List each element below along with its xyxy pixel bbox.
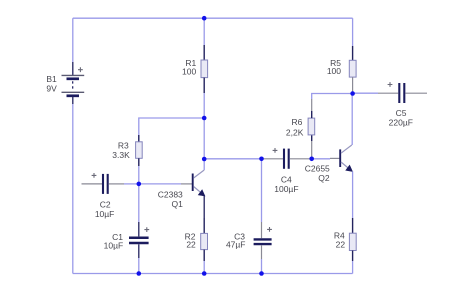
- resistor R6: [286, 111, 315, 141]
- svg-text:Q1: Q1: [171, 199, 183, 209]
- resistor R5: [327, 46, 356, 94]
- resistor R1: [182, 45, 208, 93]
- node input C2 / R3 / C1 / Q1 base: [137, 182, 142, 187]
- svg-text:2,2K: 2,2K: [286, 127, 304, 137]
- wire bottom rail: [73, 273, 353, 275]
- resistor R4: [334, 218, 356, 261]
- svg-text:3.3K: 3.3K: [112, 150, 130, 160]
- wire Q2 emitter down to R4: [352, 171, 354, 218]
- svg-text:C4: C4: [281, 174, 292, 184]
- wire R1 bottom to R3 junction: [203, 93, 205, 118]
- wire C4 node up to R6: [311, 141, 313, 159]
- node R3 / R1 junction: [202, 116, 207, 121]
- node C1 / bottom rail: [137, 271, 142, 276]
- svg-text:R3: R3: [118, 141, 129, 151]
- resistor R2: [185, 218, 208, 261]
- svg-text:100: 100: [182, 67, 196, 77]
- svg-text:10µF: 10µF: [95, 209, 115, 219]
- wire R3 bottom to input node: [138, 166, 140, 184]
- wire input node to Q1 base: [139, 183, 192, 185]
- svg-text:B1: B1: [46, 74, 57, 84]
- svg-text:C2: C2: [100, 200, 111, 210]
- capacitor C2: [82, 173, 125, 219]
- wire R6 top corner to R5 node: [312, 94, 353, 112]
- wire R4 bottom to bottom rail corner: [352, 261, 354, 274]
- svg-text:47µF: 47µF: [226, 239, 246, 249]
- capacitor C1: [104, 222, 150, 258]
- wire C1 bottom to bottom rail: [138, 258, 140, 274]
- wire R2 bottom to bottom rail: [203, 261, 205, 274]
- wire collector node to C4 node: [204, 158, 261, 160]
- capacitor C3: [226, 222, 272, 259]
- svg-text:22: 22: [336, 240, 346, 250]
- node C4 right / R6 / Q2 base: [309, 157, 314, 162]
- svg-text:10µF: 10µF: [104, 241, 124, 251]
- wire Q2 base: [312, 157, 340, 159]
- capacitor C4: [262, 148, 312, 194]
- wire Q2 collector up to R5 node: [351, 94, 353, 146]
- wire Q1 emitter down to R2: [203, 196, 205, 218]
- battery B1: [46, 67, 84, 96]
- transistor Q2: [305, 145, 353, 183]
- svg-text:100: 100: [327, 66, 341, 76]
- node R2 / bottom rail: [202, 271, 207, 276]
- wire R1 branch from top rail: [203, 18, 205, 45]
- wire top rail: [73, 17, 353, 19]
- wire R5 node to C5: [353, 92, 399, 94]
- node top rail / R1 junction: [202, 16, 207, 21]
- svg-text:C2655: C2655: [305, 164, 330, 174]
- svg-text:100µF: 100µF: [274, 184, 298, 194]
- node C3 / bottom rail: [259, 271, 264, 276]
- svg-text:C5: C5: [396, 108, 407, 118]
- wire left rail lower (battery to bottom rail): [72, 97, 74, 274]
- transistor Q1: [158, 170, 205, 209]
- wire Q1 collector to node: [203, 159, 205, 170]
- svg-text:22: 22: [186, 239, 196, 249]
- svg-text:R6: R6: [292, 117, 303, 127]
- svg-text:220µF: 220µF: [389, 118, 413, 128]
- wire C4 node down to C3: [261, 159, 263, 222]
- wire C2 to input node: [124, 183, 139, 185]
- svg-text:9V: 9V: [46, 83, 57, 93]
- svg-text:Q2: Q2: [318, 173, 330, 183]
- svg-text:C2383: C2383: [158, 189, 183, 199]
- wire left rail upper (top rail to battery): [72, 18, 74, 75]
- resistor R3: [112, 135, 142, 166]
- node C4 left / C3: [259, 157, 264, 162]
- wire R3 junction to collector node: [203, 118, 205, 159]
- wire top rail corner down to R5: [352, 18, 354, 46]
- wire C3 bottom to bottom rail: [261, 259, 263, 274]
- node Q1 collector: [202, 157, 207, 162]
- wire input node down to C1: [138, 184, 140, 222]
- wire R3 top run (corner to junction): [139, 118, 204, 142]
- node R5 / C5 / Q2 collector: [350, 91, 355, 96]
- capacitor C5: [388, 82, 427, 127]
